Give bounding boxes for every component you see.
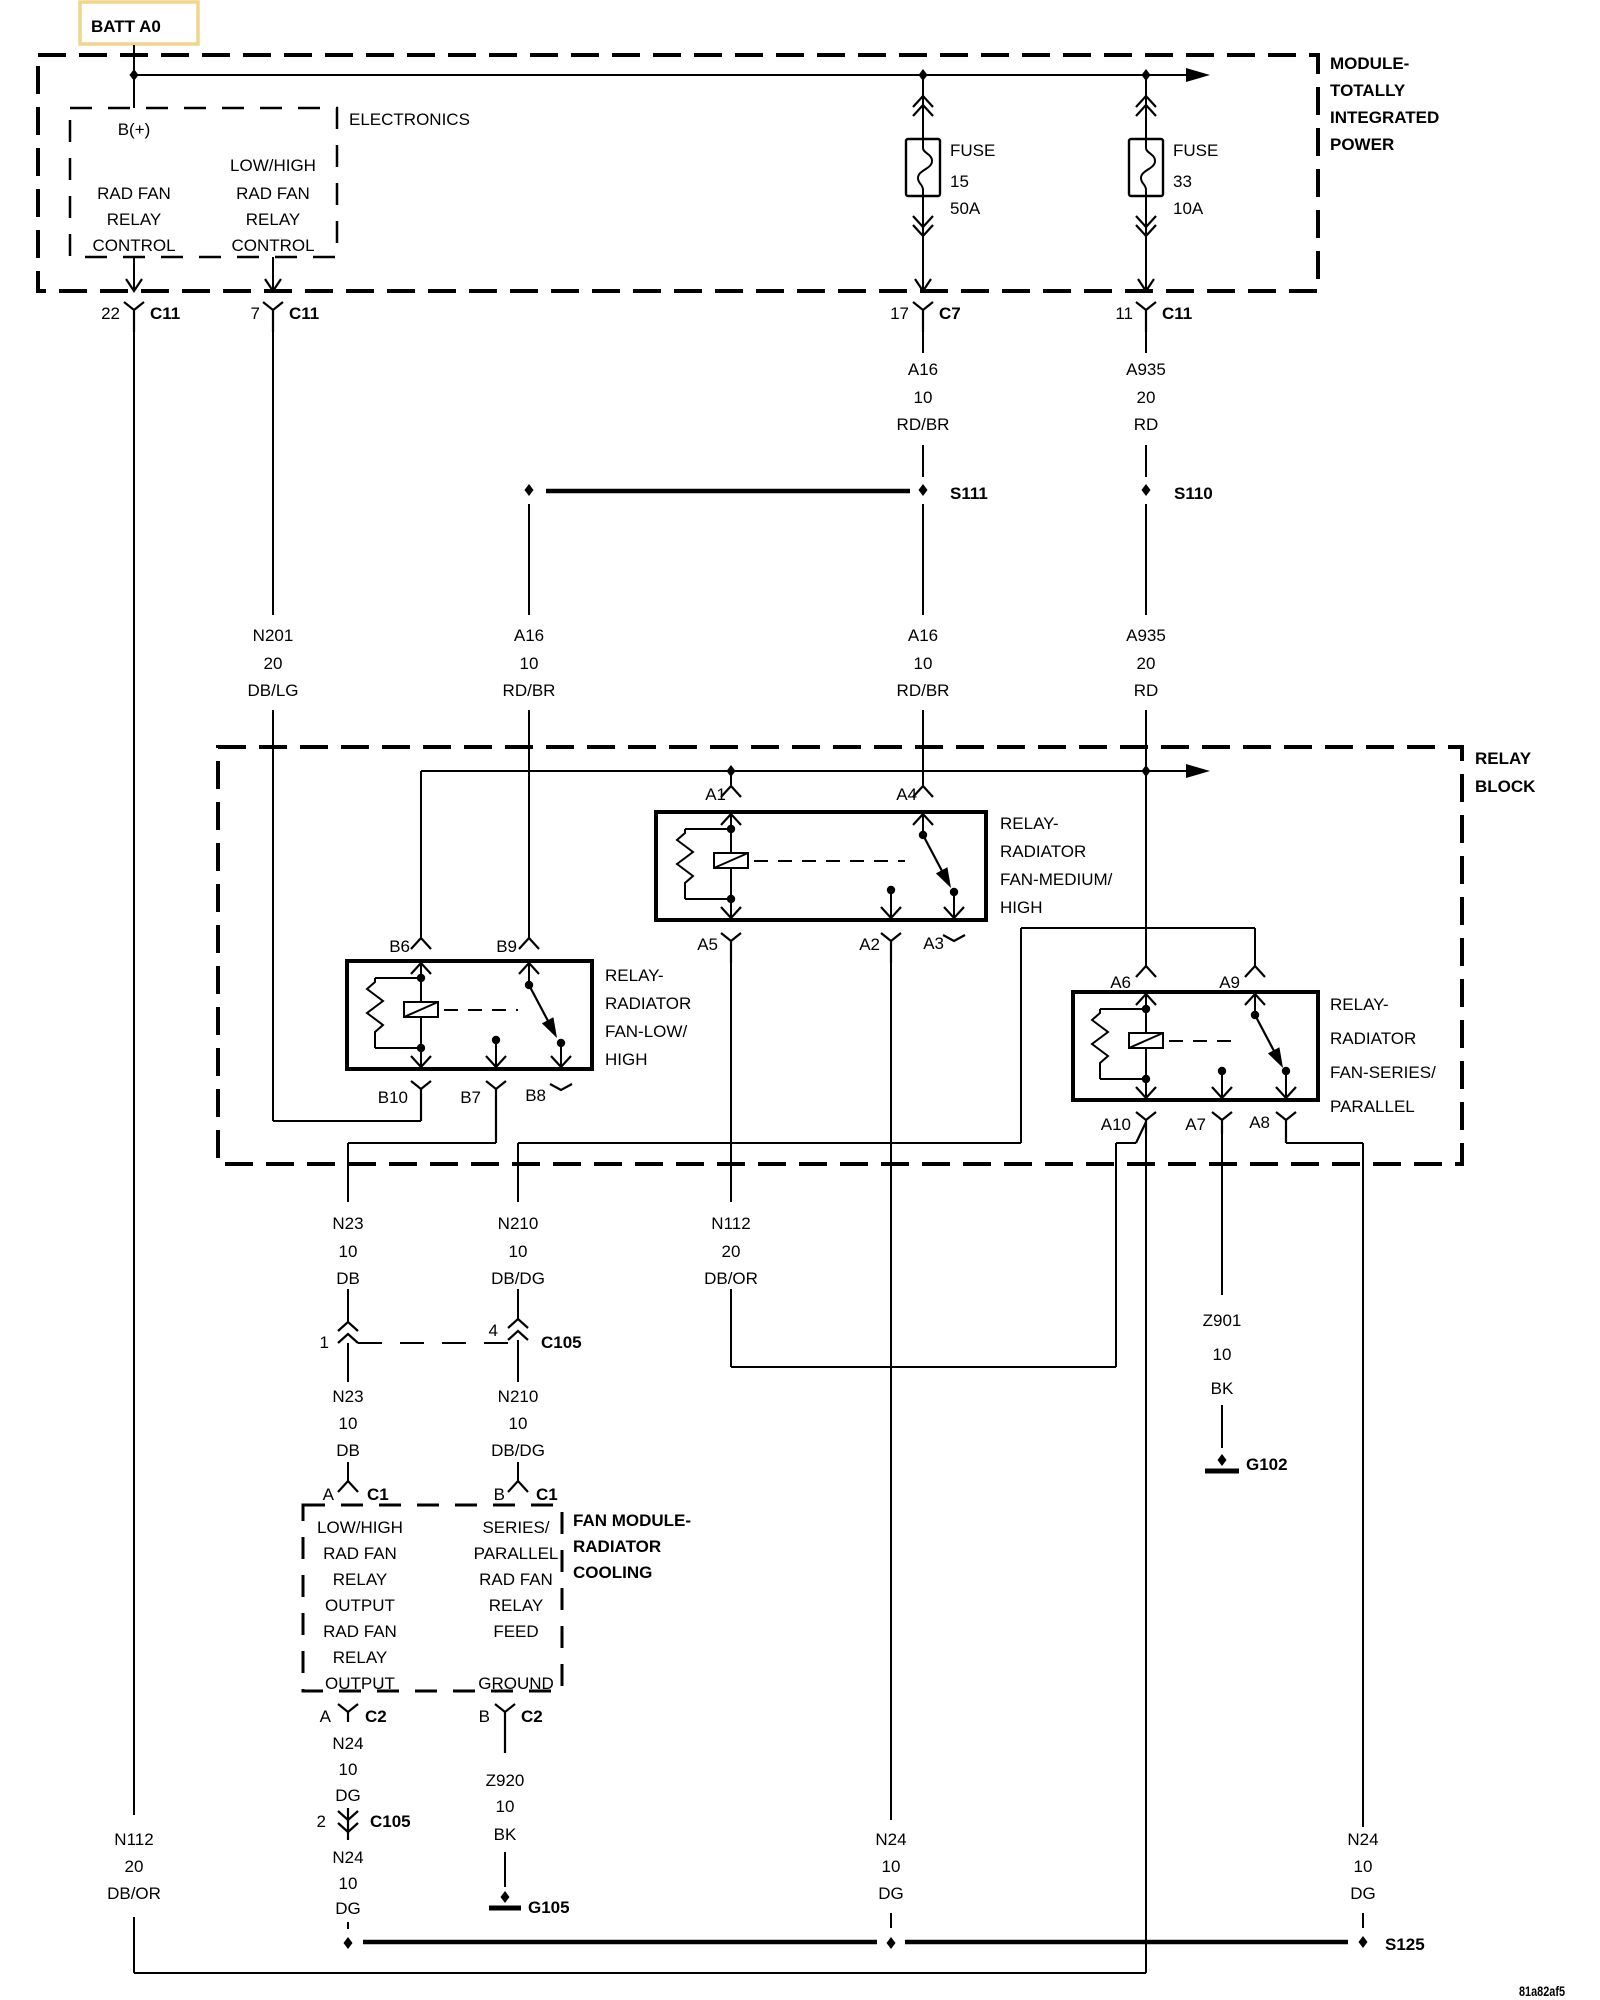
svg-text:FUSE: FUSE (950, 141, 995, 160)
connector C105 pin 4 (489, 1319, 582, 1352)
svg-text:C2: C2 (521, 1707, 543, 1726)
svg-text:C11: C11 (150, 304, 180, 323)
svg-text:10A: 10A (1173, 199, 1204, 218)
svg-text:Z901: Z901 (1203, 1311, 1242, 1330)
svg-text:33: 33 (1173, 172, 1192, 191)
svg-text:HIGH: HIGH (1000, 898, 1043, 917)
svg-text:LOW/HIGH: LOW/HIGH (230, 156, 316, 175)
svg-text:C1: C1 (536, 1485, 558, 1504)
wire: A10 straight stem to bottom (1145, 1134, 1147, 1973)
svg-text:A935: A935 (1126, 360, 1166, 379)
svg-text:17: 17 (890, 304, 909, 323)
wire: bus to fuse 15 (922, 75, 924, 139)
svg-text:RELAY: RELAY (107, 210, 162, 229)
svg-text:LOW/HIGH: LOW/HIGH (317, 1518, 403, 1537)
splice S125 (363, 1935, 1425, 1954)
svg-text:DB: DB (336, 1441, 360, 1460)
svg-text:COOLING: COOLING (573, 1563, 652, 1582)
svg-text:A5: A5 (697, 935, 718, 954)
node: splice tap at N24 column (344, 1937, 353, 1949)
svg-text:DG: DG (335, 1899, 361, 1918)
module: totally integrated power (dashed boundary) (38, 54, 1439, 291)
svg-text:DG: DG (878, 1884, 904, 1903)
svg-text:N112: N112 (114, 1830, 153, 1849)
svg-text:A9: A9 (1219, 973, 1240, 992)
wire: C105-1 to C1-A, label N23 10 DB (332, 1348, 363, 1481)
coil symbol (1129, 1033, 1163, 1048)
wire: C7-17 to splice S111, label A16 10 RD/BR (897, 332, 950, 477)
svg-text:OUTPUT: OUTPUT (325, 1674, 395, 1693)
electronics sub-module (dashed box) (70, 108, 470, 257)
wire: S111 to relay B9, label A16 10 RD/BR (503, 504, 556, 938)
fuse 15 50A (906, 139, 995, 218)
svg-text:SERIES/: SERIES/ (482, 1518, 549, 1537)
connector C11 pin 11 (1115, 302, 1192, 332)
svg-text:81a82af5: 81a82af5 (1519, 1983, 1565, 1999)
relay case (1073, 992, 1318, 1100)
svg-text:N210: N210 (498, 1214, 539, 1233)
switch common B9 (519, 963, 539, 974)
svg-text:B8: B8 (525, 1086, 546, 1105)
svg-text:A3: A3 (923, 934, 944, 953)
svg-text:ELECTRONICS: ELECTRONICS (349, 110, 470, 129)
coil branch B6 to B10 (411, 963, 431, 974)
svg-text:FUSE: FUSE (1173, 141, 1218, 160)
connector pin A3 (923, 934, 965, 953)
svg-text:RELAY: RELAY (1475, 749, 1532, 768)
resistor (coil suppression) (685, 828, 731, 830)
svg-text:N24: N24 (332, 1734, 363, 1753)
wire: bus to A1 (730, 771, 732, 786)
wire: A8 down to S125, label N24 10 DG (1286, 1143, 1379, 1928)
svg-text:11: 11 (1115, 304, 1133, 323)
svg-text:FEED: FEED (493, 1622, 538, 1641)
svg-text:20: 20 (722, 1242, 741, 1261)
node: junction bus to A6 feed (1142, 765, 1151, 777)
wire: B7 to N23 column (348, 1143, 496, 1202)
wire: low/high rad fan relay control exits module (272, 257, 274, 291)
svg-text:50A: 50A (950, 199, 981, 218)
svg-text:A: A (320, 1707, 332, 1726)
connector chevrons above fuse 33 (1136, 96, 1156, 116)
svg-text:A: A (323, 1485, 335, 1504)
coil-contact link (dashed) (444, 1009, 518, 1011)
splice S111 (525, 484, 988, 503)
switch common A4 (913, 814, 933, 825)
svg-text:A2: A2 (859, 935, 880, 954)
svg-text:N24: N24 (1347, 1830, 1378, 1849)
svg-text:N24: N24 (332, 1848, 363, 1867)
connector pin A2 (859, 933, 901, 963)
connector pin A5 (697, 933, 741, 963)
arrow: fuse 33 wire exits module (1138, 279, 1154, 291)
connector chevrons below fuse 33 (1136, 216, 1156, 236)
svg-text:10: 10 (914, 654, 933, 673)
svg-text:RD: RD (1134, 415, 1159, 434)
svg-text:C7: C7 (939, 304, 961, 323)
svg-text:DB/LG: DB/LG (247, 681, 298, 700)
svg-text:RAD FAN: RAD FAN (97, 184, 171, 203)
svg-text:RADIATOR: RADIATOR (573, 1537, 661, 1556)
coil symbol (404, 1002, 438, 1017)
connector C1 pin B (494, 1481, 558, 1504)
node: junction at B(+) tap (130, 69, 139, 81)
svg-text:RELAY: RELAY (489, 1596, 544, 1615)
coil branch A6 to A10 (1136, 994, 1156, 1005)
svg-text:B(+): B(+) (118, 120, 151, 139)
wire: C2-B to ground, label Z920 10 BK (486, 1771, 525, 1887)
svg-text:20: 20 (125, 1857, 144, 1876)
ground G102 (1205, 1454, 1288, 1474)
svg-text:10: 10 (339, 1242, 358, 1261)
ground G105 (489, 1891, 570, 1917)
contact B7 (492, 1036, 500, 1044)
wire: N23 label column, 1-C105 (332, 1214, 363, 1322)
svg-text:PARALLEL: PARALLEL (1330, 1097, 1415, 1116)
svg-text:N24: N24 (875, 1830, 906, 1849)
wire: to splice S125, label N24 10 DG (332, 1848, 363, 1929)
svg-text:BLOCK: BLOCK (1475, 777, 1536, 796)
svg-text:RADIATOR: RADIATOR (605, 994, 691, 1013)
svg-text:RAD FAN: RAD FAN (479, 1570, 553, 1589)
svg-text:20: 20 (264, 654, 283, 673)
svg-text:G102: G102 (1246, 1455, 1288, 1474)
svg-text:S110: S110 (1174, 484, 1213, 503)
svg-text:N201: N201 (253, 626, 294, 645)
svg-text:10: 10 (882, 1857, 901, 1876)
connector C7 pin 17 (890, 302, 961, 332)
splice S110 (1142, 484, 1213, 503)
wire: A5 to A10 jog, label N112 20 DB/OR (704, 963, 1146, 1367)
svg-text:10: 10 (914, 388, 933, 407)
svg-text:GROUND: GROUND (478, 1674, 554, 1693)
svg-text:A16: A16 (908, 360, 938, 379)
wire: relay block feed bus with arrow (421, 764, 1210, 938)
svg-text:RADIATOR: RADIATOR (1330, 1029, 1416, 1048)
coil branch A1 to A5 (721, 814, 741, 825)
svg-text:RELAY: RELAY (333, 1648, 388, 1667)
wire: C105-4 to C1-B, label N210 10 DB/DG (491, 1345, 545, 1481)
connector C105 pin 2 (317, 1808, 411, 1840)
svg-text:RELAY: RELAY (333, 1570, 388, 1589)
svg-text:C105: C105 (370, 1812, 411, 1831)
svg-text:RELAY-: RELAY- (605, 966, 664, 985)
wire: C2-A label N24 10 DG (332, 1734, 363, 1805)
svg-text:10: 10 (339, 1760, 358, 1779)
arrow: fuse 15 wire exits module (915, 279, 931, 291)
node: junction at fuse 15 tap (919, 69, 928, 81)
resistor (coil suppression) (375, 977, 421, 979)
svg-text:C2: C2 (365, 1707, 387, 1726)
svg-text:7: 7 (251, 304, 260, 323)
svg-text:10: 10 (1213, 1345, 1232, 1364)
svg-text:FAN-LOW/: FAN-LOW/ (605, 1022, 687, 1041)
svg-text:A6: A6 (1110, 973, 1131, 992)
wire: battery bus across module with arrow (134, 68, 1210, 82)
wire: A7 to ground, label Z901 10 BK (1203, 1134, 1242, 1448)
connector C11 pin 22 (101, 302, 180, 332)
svg-text:BATT A0: BATT A0 (91, 17, 161, 36)
svg-text:10: 10 (509, 1414, 528, 1433)
relay block (dashed boundary) (218, 747, 1536, 1164)
wire: fuse 15 output to module edge (922, 196, 924, 291)
svg-text:DG: DG (335, 1786, 361, 1805)
svg-text:A16: A16 (908, 626, 938, 645)
node: junction at fuse 33 tap (1142, 69, 1151, 81)
switch common A9 (1245, 994, 1265, 1005)
connector C2 pin B (479, 1704, 543, 1753)
svg-text:B: B (494, 1485, 505, 1504)
svg-text:DB/DG: DB/DG (491, 1441, 545, 1460)
svg-text:DB: DB (336, 1269, 360, 1288)
contact A2 (887, 886, 895, 894)
wire: S111 to relay A4, label A16 10 RD/BR (897, 504, 950, 786)
svg-text:B6: B6 (389, 937, 410, 956)
switch arm to B8 (529, 985, 551, 1027)
svg-text:RADIATOR: RADIATOR (1000, 842, 1086, 861)
svg-text:20: 20 (1137, 654, 1156, 673)
svg-text:FAN MODULE-: FAN MODULE- (573, 1511, 691, 1530)
svg-text:10: 10 (509, 1242, 528, 1261)
svg-text:20: 20 (1137, 388, 1156, 407)
svg-text:HIGH: HIGH (605, 1050, 648, 1069)
relay K3: radiator fan-series/parallel (1073, 966, 1436, 1116)
svg-text:22: 22 (101, 304, 120, 323)
svg-text:2: 2 (317, 1812, 326, 1831)
wire: N210 label column (491, 1143, 545, 1319)
svg-text:4: 4 (489, 1321, 498, 1340)
svg-text:DG: DG (1350, 1884, 1376, 1903)
node: splice S125 tap at A2 wire (887, 1937, 896, 1949)
wire: BATT A0 down to B(+) (133, 45, 135, 108)
svg-text:RELAY-: RELAY- (1330, 995, 1389, 1014)
connector pin B7 (460, 1081, 506, 1143)
svg-text:RELAY: RELAY (246, 210, 301, 229)
connector pin A8 (1249, 1112, 1296, 1143)
svg-text:C1: C1 (367, 1485, 389, 1504)
svg-text:FAN-SERIES/: FAN-SERIES/ (1330, 1063, 1436, 1082)
connector C105 pin 1 (320, 1322, 508, 1352)
svg-text:N23: N23 (332, 1387, 363, 1406)
svg-text:A8: A8 (1249, 1113, 1270, 1132)
wire: C11-11 to splice S110, label A935 20 RD (1126, 332, 1166, 477)
relay K1: radiator fan-low/high (347, 937, 691, 1069)
svg-text:S111: S111 (950, 484, 988, 503)
svg-text:Z920: Z920 (486, 1771, 525, 1790)
svg-text:G105: G105 (528, 1898, 570, 1917)
coil-contact link (dashed) (754, 860, 905, 862)
svg-text:FAN-MEDIUM/: FAN-MEDIUM/ (1000, 870, 1113, 889)
battery feed label BATT A0 (80, 2, 198, 44)
svg-text:N112: N112 (711, 1214, 750, 1233)
svg-text:C11: C11 (289, 304, 319, 323)
wire: S110 to relay A6, label A935 20 RD (1126, 504, 1166, 966)
resistor (coil suppression) (1100, 1008, 1146, 1010)
wire: N210 link from B-column up to A9 (518, 928, 1255, 1143)
svg-text:DB/OR: DB/OR (107, 1884, 161, 1903)
wire: bus to fuse 33 (1145, 75, 1147, 139)
connector C2 pin A (320, 1704, 387, 1726)
svg-text:S125: S125 (1385, 1935, 1425, 1954)
svg-text:CONTROL: CONTROL (231, 236, 314, 255)
wire: C11-22 down and across bottom to A10, label N112 20 DB/OR (107, 332, 1146, 1973)
connector pin B8 (525, 1084, 572, 1105)
wire: rad fan relay control exits module (133, 257, 135, 291)
connector C1 pin A (323, 1481, 389, 1504)
svg-text:DB/DG: DB/DG (491, 1269, 545, 1288)
fan module - radiator cooling (dashed box) (303, 1505, 691, 1693)
svg-text:BK: BK (494, 1825, 517, 1844)
contact A7 (1218, 1067, 1226, 1075)
svg-text:CONTROL: CONTROL (92, 236, 175, 255)
svg-text:TOTALLY: TOTALLY (1330, 81, 1406, 100)
arrow: exit at module edge x=273 (265, 279, 281, 291)
svg-text:BK: BK (1211, 1379, 1234, 1398)
svg-text:RAD FAN: RAD FAN (323, 1544, 397, 1563)
svg-text:B9: B9 (496, 937, 517, 956)
connector chevrons above fuse 15 (913, 96, 933, 116)
svg-text:RD/BR: RD/BR (897, 681, 950, 700)
wire: C11-7 down, label N201 20 DB/LG, to relay B10 (247, 332, 421, 1121)
svg-text:OUTPUT: OUTPUT (325, 1596, 395, 1615)
svg-text:B7: B7 (460, 1088, 481, 1107)
switch arm to A8 (1255, 1015, 1277, 1057)
fuse 33 10A (1129, 139, 1218, 218)
relay case (347, 961, 592, 1069)
svg-text:10: 10 (1354, 1857, 1373, 1876)
relay K2: radiator fan-medium/high (656, 785, 1113, 920)
svg-text:10: 10 (339, 1414, 358, 1433)
switch arm to A3 (923, 835, 945, 877)
svg-text:INTEGRATED: INTEGRATED (1330, 108, 1439, 127)
svg-text:10: 10 (520, 654, 539, 673)
connector pin B10 (378, 1081, 431, 1121)
connector chevrons below fuse 15 (913, 216, 933, 236)
svg-text:C11: C11 (1162, 304, 1192, 323)
svg-text:RELAY-: RELAY- (1000, 814, 1059, 833)
svg-text:RAD FAN: RAD FAN (323, 1622, 397, 1641)
svg-text:10: 10 (339, 1874, 358, 1893)
coil symbol (714, 853, 748, 868)
svg-text:RAD FAN: RAD FAN (236, 184, 310, 203)
svg-text:A10: A10 (1101, 1115, 1131, 1134)
svg-text:B: B (479, 1707, 490, 1726)
svg-text:N210: N210 (498, 1387, 539, 1406)
connector pin A10 (1101, 1112, 1156, 1134)
coil-contact link (dashed) (1169, 1040, 1237, 1042)
svg-text:C105: C105 (541, 1333, 582, 1352)
svg-text:1: 1 (320, 1333, 329, 1352)
svg-text:10: 10 (496, 1797, 515, 1816)
svg-text:B10: B10 (378, 1088, 408, 1107)
node: junction bus to A1 (727, 765, 736, 777)
svg-text:RD: RD (1134, 681, 1159, 700)
svg-text:POWER: POWER (1330, 135, 1394, 154)
relay case (656, 812, 986, 920)
svg-text:N23: N23 (332, 1214, 363, 1233)
connector pin A7 (1185, 1112, 1232, 1134)
svg-text:A16: A16 (514, 626, 544, 645)
svg-text:DB/OR: DB/OR (704, 1269, 758, 1288)
svg-text:A7: A7 (1185, 1115, 1206, 1134)
svg-text:15: 15 (950, 172, 969, 191)
svg-text:RD/BR: RD/BR (897, 415, 950, 434)
svg-text:PARALLEL: PARALLEL (474, 1544, 559, 1563)
arrow: exit at module edge x=134 (126, 279, 142, 291)
connector C11 pin 7 (251, 302, 320, 332)
svg-text:MODULE-: MODULE- (1330, 54, 1409, 73)
wire: fuse 33 output to module edge (1145, 196, 1147, 291)
svg-text:RD/BR: RD/BR (503, 681, 556, 700)
wire: A2 down to S125, label N24 10 DG (875, 963, 906, 1928)
svg-text:A935: A935 (1126, 626, 1166, 645)
